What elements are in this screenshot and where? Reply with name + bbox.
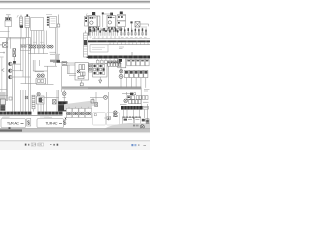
ignition switch dark blob [57,60,60,63]
wire V x144.5 [144,110,146,118]
fuse block wires [118,27,120,29]
fuse F4 [37,45,40,48]
lamp L2 [9,69,13,73]
title box TB1 [1,119,26,128]
label text TR1 [141,26,147,28]
wires below connector bus [123,110,125,117]
toolbar right dash [143,145,146,147]
main bus BB1 dark [88,40,150,42]
harness verticals [20,38,22,71]
faint box FB3 [93,113,106,125]
toolbar icon dot [53,144,54,146]
motor M3 [119,74,123,78]
fuse panel lower element [78,76,84,78]
lamp L3 [9,75,13,79]
relay K2 coil lamp [37,92,40,95]
toolbar right blue icon 2 [134,144,136,146]
relay K1 body [5,21,12,27]
wire H 83.5 [21,83,37,85]
wire L3 to harness [13,76,31,78]
wire H at 38.8 [7,38,26,40]
wire H at 37.5 [0,37,31,39]
relay M1 pin box [97,16,100,27]
fuse row lead bar [88,27,89,36]
wire pair H 74 [68,73,77,75]
wire V x121 [120,66,122,88]
resistor column R1 [20,17,23,27]
relay M1 side strip [85,17,89,27]
fuse F6 [3,43,8,48]
wire H 24 right [140,23,149,25]
wire H 97.5 [44,97,59,99]
sensor S1 [9,97,12,100]
terminal bank columns [120,28,122,36]
wire pair to fuse panel [67,62,76,64]
connector bus CB dark [121,106,143,110]
flasher unit dark cluster [58,101,68,111]
small component row [97,60,100,63]
toolbar sep 1 [36,143,38,146]
toolbar icon plus [57,144,59,146]
junction box JB1 [0,99,5,105]
gauge box G2 [73,108,79,117]
wire x131 tick [130,21,132,23]
label mark 4 [25,96,28,99]
relay unit RU1 [118,58,126,68]
callout box CB1 [90,45,108,52]
page band fade [0,131,150,134]
toolbar icon minus [50,144,52,146]
delta mark [99,80,102,83]
svg-text:86: 86 [39,143,42,147]
resistor ladder R3 [32,95,35,109]
lamp box LB1 [89,64,93,73]
right label box RB1 [123,118,134,124]
wire H 97.6 [90,97,104,99]
ground bus GB1 [0,112,32,115]
wire F1 down [7,27,9,38]
terminal bank labels [121,36,124,38]
gauge box G3 [79,108,85,117]
label text TR2 [119,46,124,48]
wire L2 to harness [13,70,23,72]
wire H 89.5 stub [0,89,7,91]
wire H 93.5 [122,93,134,95]
switch unit SW2 [62,61,67,65]
relay K3 body [36,78,46,84]
wire V x10.5 [9,38,11,49]
harness verticals to bus [12,64,14,112]
battery feed double wire [5,38,7,101]
label dash TL1 [6,14,11,16]
fuse block FB2 top mark [120,12,123,15]
right edge cluster [146,120,150,124]
bus harness band 87.8 [62,87,141,90]
bus line 44.5 [90,44,150,46]
toolbar right blue icon 1 [131,144,133,146]
relay M2 top box [110,13,113,16]
connector strip CS2 [124,70,128,77]
splice mark R1 bottom [20,25,23,28]
dark bottom-left edge segment [0,129,22,131]
fuse F5 [42,45,45,48]
glyph above band [9,127,11,129]
connector end CE1 [104,117,111,119]
wire V x108.5 [108,66,110,88]
strip BR4 with text [136,96,139,100]
strip CS2 wires down [125,78,127,88]
fuse F7 vertical [13,49,16,57]
lamp L1 [9,62,13,66]
fuse row labels [90,36,92,38]
fuse F2 [29,45,32,48]
battery block dark [0,105,5,110]
fuse panel inner rects [79,65,82,70]
relay M1 wires down [90,27,92,29]
fuse block FB2 lamps [119,27,122,30]
shade panel lower-left [0,92,6,111]
switch SW4 [95,103,98,107]
main bus BB2 dark segmented [88,56,150,59]
strip BR3 [129,100,132,104]
wire V x108.5 lower [108,92,110,118]
tiny labels under bus [2,116,9,118]
toolbar page field [31,143,36,146]
connector pin strip CN1 [47,17,49,19]
right dark marks RM1 [142,119,145,122]
junction strip under LP1 [50,51,57,53]
relay M1 feet [90,27,92,29]
wire H 31.5 stub [0,31,10,33]
wire bundle from A1 [31,31,33,46]
toolbar right gray mark [138,144,139,146]
ignition switch shade [55,54,59,62]
node bus wire N1 [28,53,48,55]
toolbar background [0,141,150,150]
gauge box G1 [66,108,72,117]
label text TL2 [46,14,52,16]
wire V x102 with tick [102,12,104,14]
curve lead mark [17,15,19,17]
diode unit D2 [135,22,140,28]
ground rail line [0,115,63,117]
control unit box A1 [31,18,44,31]
wire pair V x67.5 [67,65,69,74]
svg-text:TL/R-AC: TL/R-AC [7,122,20,126]
wire pair right of CN1 [55,28,57,67]
gauge box G4 [85,108,91,117]
diode D1 with lead [57,15,59,25]
toolbar nav icon 1 [25,144,27,146]
fuse F3 [33,45,36,48]
connector strip CS1 [127,59,131,65]
faint box FB4 [107,113,120,125]
wires under H97 [92,98,94,106]
fuse box F1 [6,17,12,20]
relay K3 contacts [37,74,40,77]
wire pair x57 [56,90,58,112]
terminal strip TS1 [108,62,110,67]
svg-text:TL/R-AC: TL/R-AC [46,122,59,126]
top window edge band [0,0,150,2]
connector ladder CL1 [84,33,88,57]
relay K2 wires [37,104,39,112]
tick row under bus BB1 [109,42,111,44]
wire V x39.5 stub [39,60,41,66]
fuse panel lamp [77,70,80,73]
component row BR2 [127,96,131,100]
horn HN1 [113,111,117,115]
right label box RB2 [134,118,140,124]
splice dark blob [13,61,16,64]
title box TB2 [37,119,64,128]
wire pair H to K3 [33,70,47,72]
wire V x147.5 [147,104,149,122]
resistor column R2 [25,17,30,28]
motor lamp ML1 [120,70,123,73]
wires fuses to node bus [29,48,31,54]
fuse block FB2 row1 [117,15,126,20]
wire V x47.5 [47,66,49,84]
fuse row bank [89,28,91,36]
switch box SB1 [21,44,31,50]
connector bus tail [143,106,148,109]
relay M2 body [107,16,116,28]
shadow dark dashes [133,125,135,127]
label dark text BR1 [130,93,133,95]
bus wire 88 [88,87,141,89]
switch SW1 [53,100,57,104]
toolbar nav icon 2 [28,144,29,146]
relay M1 body [89,16,97,27]
toolbar zoom field [39,143,44,146]
fuse panel box FB1 [75,63,89,80]
tick up x132 [131,52,133,55]
fuse panel cells [81,72,83,76]
relay matrix box MX1 [93,64,108,78]
diagonal lead to F6 [6,39,10,43]
wire V x96 stub [95,92,97,98]
page top rule [0,8,150,9]
wire V x141 down [140,88,142,106]
terminal labels dark row [122,117,124,120]
lamp L6 [124,99,128,103]
lamp L5 [103,95,107,99]
lamp L4 [62,92,66,96]
wire H 95.5 [0,95,8,97]
svg-text:1/4: 1/4 [32,143,36,147]
fuse block FB2 row2 [117,21,126,26]
arrow mark left [1,69,4,72]
connector below panel [80,83,83,86]
pin squares above panel [87,57,89,58]
wire H 84.4 [36,83,54,85]
lamp pair LP1 [47,45,50,48]
wire H 62.6 [53,62,68,64]
connector housing CN1 box [50,17,57,28]
page curl shadow right [102,123,150,131]
bus line thin 38.8 [92,38,150,40]
wire V x61.5 [61,66,63,92]
labels above boxes [3,116,10,118]
svg-text:$: $ [27,120,30,126]
page fold shadow [64,101,92,111]
switch SW3 [91,100,94,103]
label text BR5 [120,103,127,105]
page bottom edge band [0,128,150,129]
ground lead left [0,52,5,54]
relay M2 wires down [108,27,110,29]
relay M1 top box [92,12,95,15]
relay K2 body [37,96,45,104]
label text TR3 [144,88,150,90]
wire V x126.5 stub [126,92,128,95]
section mark SM1 [27,118,31,126]
ground bus GB2 [38,112,63,115]
page left margin line [1,58,3,100]
relay M2 feet [108,27,110,28]
wire H 66 [44,65,57,67]
fuse labels above row [33,41,37,43]
wire V x46.5 [46,92,48,112]
switch SB1 contacts [21,45,23,47]
wire pair V x33 [32,60,34,71]
wire L1 to harness [13,63,21,65]
svg-text:$: $ [63,121,66,127]
lamp in shadow [140,125,144,129]
